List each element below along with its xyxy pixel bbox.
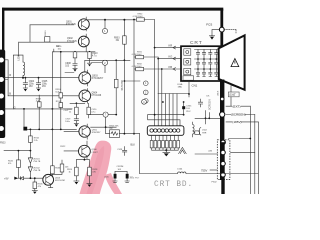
svg-text:CRT BD.: CRT BD. [154, 181, 193, 189]
test point 1 stem [104, 20, 106, 29]
C904 ground [23, 87, 27, 89]
R924 ground [74, 180, 79, 182]
svg-text:L502: L502 [202, 130, 208, 132]
P503 pin 5 [0, 126, 4, 132]
brace [199, 128, 201, 136]
wire from P503 pin row y56 [5, 55, 23, 109]
C920 leads [88, 103, 90, 118]
180V rail vertical [134, 20, 136, 134]
test point 7 stem [89, 115, 117, 128]
svg-text:KTC2026: KTC2026 [67, 41, 77, 43]
screen rail stubs [201, 99, 210, 124]
connector CN2 body [147, 126, 184, 136]
(W) wire [195, 153, 217, 155]
wire y62.75 w/ TP [65, 63, 105, 73]
warning triangle [231, 59, 239, 67]
svg-text:B: B [9, 91, 11, 95]
resistor R930 (R feed) [136, 18, 144, 21]
C924 ground [125, 181, 129, 182]
connector P503 body [0, 50, 5, 138]
HT connector pin 2 [221, 150, 226, 155]
junction dot [124, 80, 126, 82]
top power bus [2, 8, 223, 11]
junction dot [165, 149, 167, 151]
mid rail y114.7 [148, 114, 184, 116]
svg-text:ZV4.7B: ZV4.7B [33, 161, 41, 163]
left bus [2, 8, 4, 50]
test point 7 [103, 112, 108, 117]
diode D503 [18, 177, 42, 180]
FCS bus [220, 9, 223, 47]
resistor R537 [60, 164, 64, 172]
resistor array common rail [152, 148, 179, 150]
transistor Q905 [79, 124, 90, 139]
wire R903 leads [123, 20, 125, 61]
svg-text:C1027: C1027 [92, 152, 99, 154]
left riser to bottom rail [139, 134, 141, 174]
P503 pin 4 [0, 110, 4, 116]
svg-text:Q903: Q903 [92, 76, 98, 78]
HT connector pin 1 [220, 139, 226, 145]
resistor R931 (G feed) [136, 55, 144, 58]
resistor R905 [74, 51, 76, 53]
resistor R535 [33, 182, 37, 189]
svg-text:R914 2.2k: R914 2.2k [120, 80, 122, 91]
svg-text:CRT: CRT [190, 40, 203, 46]
P503 pin 2 [0, 77, 4, 83]
resistor R532 [17, 160, 21, 168]
C905 ground [36, 87, 40, 89]
resistor R910 [59, 93, 63, 98]
wire KG row [158, 58, 181, 60]
resistor R903 [123, 36, 127, 44]
svg-text:R922: R922 [60, 146, 66, 148]
HT connector pin 3 [221, 161, 226, 166]
resistor R932 (B feed) [136, 67, 144, 70]
junction dot [38, 77, 40, 79]
node KB row [161, 68, 163, 70]
KG arrowhead [173, 57, 176, 60]
HT cable thick bar [220, 80, 224, 181]
cap rail [115, 171, 127, 173]
svg-text:Q901: Q901 [66, 22, 72, 24]
R908/R910 leads [39, 95, 61, 129]
junction dot y103.3 [76, 102, 78, 104]
pink watermark stroke (right foot) [105, 173, 123, 194]
capacitor C908 [73, 58, 77, 68]
svg-text:KB: KB [169, 65, 173, 69]
mid rail y119.8 [148, 115, 180, 126]
R535 ground [32, 190, 37, 192]
Q503 ground [48, 187, 52, 189]
svg-text:R923: R923 [45, 30, 47, 36]
junction dot [22, 77, 24, 79]
resistor R908 [37, 102, 41, 107]
R926 wires [106, 127, 140, 134]
junction dot [105, 126, 107, 128]
svg-text:Q904: Q904 [92, 93, 98, 95]
resistor R926 box [110, 130, 120, 138]
wire stub y81 [124, 80, 140, 82]
svg-text:R: R [9, 73, 11, 77]
pink watermark stroke (main band) [80, 141, 112, 194]
KR arrowhead [173, 46, 176, 49]
capacitor C904 [23, 78, 27, 88]
svg-text:TER: TER [202, 132, 207, 134]
junction dot [30, 150, 32, 152]
junction dot [25, 77, 27, 79]
svg-text:0.5W 10kV: 0.5W 10kV [133, 16, 143, 18]
junction dot [30, 177, 32, 179]
resistor R934 [29, 136, 33, 143]
wire y103.3 [70, 103, 85, 107]
svg-text:R903: R903 [114, 37, 120, 39]
R feed wire [144, 20, 155, 126]
HT cable inside connector [221, 142, 224, 194]
transistor Q903 [79, 70, 91, 86]
emitter rail y159.7 [76, 159, 89, 160]
resistor array row [150, 141, 179, 148]
svg-text:2W: 2W [109, 128, 112, 130]
svg-text:(SCREEN): (SCREEN) [231, 112, 246, 116]
svg-text:PKV: PKV [186, 111, 191, 113]
cap C935 (polarized) [182, 106, 185, 109]
junction dot [104, 19, 106, 21]
zener ZD502 [28, 167, 32, 178]
wire vertical x53.8 [53, 49, 55, 52]
svg-text:KR: KR [169, 44, 173, 48]
HT connector pin 4 [221, 172, 226, 177]
svg-text:CN1: CN1 [192, 83, 198, 87]
HT connector dashed box [217, 140, 230, 180]
circled pin 1 [144, 81, 149, 86]
junction dot [18, 150, 20, 152]
FCS node circle [219, 27, 224, 32]
CRT funnel [219, 35, 245, 89]
wire vertical node x30 [29, 25, 31, 42]
svg-text:L903: L903 [19, 55, 21, 61]
inductor L504 [178, 172, 186, 173]
svg-text:+9V: +9V [4, 177, 9, 180]
socket bottom rail [158, 94, 189, 126]
R928 ground [87, 183, 92, 185]
resistor R536 [51, 166, 55, 174]
capacitor C910 [89, 51, 91, 53]
svg-text:16V: 16V [42, 86, 47, 88]
CRT socket box CN1 [181, 46, 221, 81]
svg-text:(EXT): (EXT) [233, 105, 241, 109]
ecap C923 [114, 174, 117, 179]
socket cap grid columns [196, 50, 218, 77]
wire from P503 G row [4, 109, 72, 127]
wire collector rail y19.8 [86, 19, 137, 21]
C919 ground [74, 122, 78, 124]
FCS dashed stub [224, 30, 236, 34]
node KG row [157, 58, 159, 60]
wire emitter row y77.7 [4, 77, 79, 79]
EHT box [228, 92, 239, 97]
P503 pin 1 [0, 57, 4, 63]
ecap C927 [23, 127, 27, 131]
test point 2 [102, 60, 107, 65]
svg-text:KTC2026: KTC2026 [66, 24, 76, 26]
resistor R928 [88, 167, 92, 176]
junction dots screen rail [205, 117, 207, 119]
circled pin 3 [144, 99, 149, 104]
wire base row Q902 [19, 41, 74, 43]
svg-text:KTA733Y: KTA733Y [92, 131, 101, 134]
screen pot resistor [195, 131, 200, 134]
wire vertical x124.4 [123, 60, 125, 133]
wire rail y51.8 [53, 51, 96, 53]
capacitor top bars [198, 102, 202, 107]
socket bottom lead [188, 81, 190, 97]
junction dot [123, 19, 125, 21]
KB arrowhead [173, 68, 176, 71]
bottom rail [140, 173, 258, 175]
CN2 pins [150, 129, 180, 132]
svg-text:(W): (W) [209, 151, 213, 153]
junction dot [115, 59, 117, 61]
junction dot [84, 159, 86, 161]
svg-text:ZV4.7B: ZV4.7B [33, 170, 41, 172]
capacitor C919 [74, 115, 78, 124]
test point circled [142, 99, 147, 104]
svg-text:16V: 16V [29, 86, 34, 88]
svg-text:KRC102M: KRC102M [55, 180, 65, 182]
zener ZD501 [28, 151, 32, 167]
spark gap [179, 147, 187, 153]
B feed wire [144, 69, 162, 126]
junction dot [34, 177, 36, 179]
FCS ground [209, 30, 219, 36]
socket internal R-G-B cells [183, 49, 194, 80]
junction dot [60, 51, 62, 53]
svg-text:(185V): (185V) [232, 120, 241, 124]
svg-text:KCA-: KCA- [178, 83, 183, 86]
capacitor C920 [87, 107, 90, 115]
wire vertical x62.5 [60, 52, 62, 93]
anode tick [232, 85, 240, 88]
svg-text:BLK: BLK [131, 144, 136, 147]
screen rail y118.3 [195, 117, 220, 119]
wire Q905 base [64, 130, 82, 132]
svg-text:KTC2026Y: KTC2026Y [92, 78, 104, 80]
transistor Q503 [43, 172, 54, 188]
capacitor C905 [36, 78, 40, 88]
node KR row [154, 47, 156, 49]
L502 coil [193, 122, 195, 137]
wire vertical x18.7 [18, 42, 20, 56]
svg-text:FCS: FCS [206, 23, 212, 27]
C908 ground [73, 67, 77, 69]
svg-text:0.5W 10kV: 0.5W 10kV [132, 66, 142, 68]
svg-text:0.5W 10kV: 0.5W 10kV [132, 54, 142, 56]
svg-text:EHT: EHT [230, 93, 236, 97]
array ground [163, 150, 170, 152]
junction dot [124, 59, 126, 61]
wire collector rail y60.3 [85, 60, 130, 72]
wire vertical x52.4 [51, 52, 53, 178]
main lower rail y129.4 [27, 128, 76, 130]
svg-text:L504: L504 [177, 168, 183, 170]
resistor R923 [45, 37, 50, 42]
G feed wire [144, 57, 158, 126]
cable node small [220, 97, 224, 101]
svg-text:P503: P503 [0, 143, 6, 145]
transistor Q904 [79, 89, 91, 104]
cable node screen [220, 112, 225, 117]
right bus vertical 2 [254, 115, 256, 195]
P503 pin 3 [0, 93, 4, 99]
svg-text:P502: P502 [212, 182, 218, 184]
wire KR row [155, 47, 181, 49]
svg-text:755V: 755V [201, 169, 207, 173]
R914 leads [115, 60, 117, 114]
resistor R924 [75, 167, 79, 176]
R535 lead [34, 178, 36, 190]
resistor R914 [114, 79, 118, 88]
wire Q906 base [64, 150, 82, 152]
R924 leads [75, 160, 77, 181]
C923 ground [113, 181, 117, 182]
right bus vertical 1 [249, 106, 251, 194]
junction dots mid rails [154, 114, 156, 116]
svg-text:KTC1026: KTC1026 [92, 95, 102, 97]
svg-text:C928: C928 [117, 149, 123, 151]
svg-text:4.7u: 4.7u [92, 56, 97, 58]
svg-text:Q902: Q902 [67, 38, 73, 40]
junction dots lower rail [30, 129, 32, 131]
wire top row to Q901 base [30, 24, 74, 26]
EHT lead down [230, 85, 232, 107]
inductor L903 [23, 62, 25, 78]
junction dot right rails [249, 138, 251, 140]
test point 1 [102, 28, 107, 33]
svg-text:KG: KG [169, 55, 173, 59]
Q503 collector wire [51, 160, 62, 174]
socket grid junction dots [197, 58, 217, 70]
svg-text:SCREEN: SCREEN [209, 99, 212, 110]
+9V arrow [14, 177, 18, 180]
circled pin 2 [144, 90, 149, 95]
svg-text:73K: 73K [115, 126, 119, 128]
right rail y152.4 [231, 151, 255, 153]
transistor Q902 [78, 34, 89, 52]
R928 leads [88, 160, 90, 184]
svg-text:1EA: 1EA [178, 86, 183, 89]
wire KB row [162, 68, 181, 70]
R934 leads [29, 129, 31, 150]
rail y148.3 [4, 150, 30, 152]
socket cap grid rails [195, 50, 220, 70]
R532 leads [17, 151, 19, 179]
755V wire [210, 169, 217, 171]
CN2 lower stubs [152, 135, 179, 140]
resistor R917 [75, 107, 79, 115]
right rail y138.5 [229, 138, 251, 140]
transistor Q906 [79, 141, 91, 159]
ecap C924 [126, 174, 129, 179]
capacitor C928 [122, 147, 126, 156]
transistor Q901 [78, 17, 89, 31]
svg-text:1BUS: 1BUS [218, 90, 220, 96]
pink watermark inner shade [87, 146, 105, 194]
